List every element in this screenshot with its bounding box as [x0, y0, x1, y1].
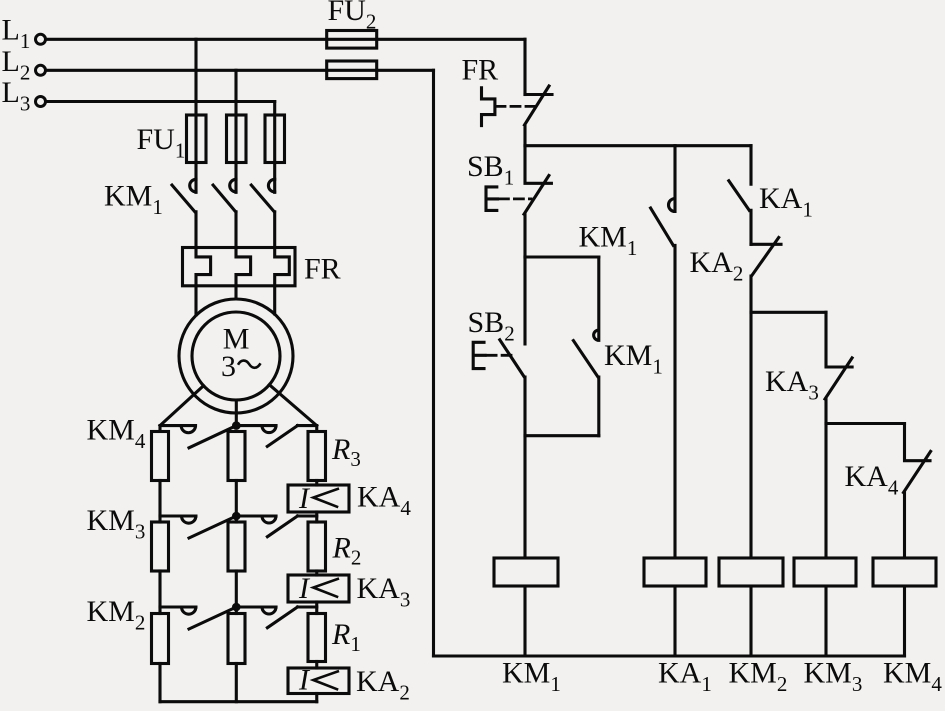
- relay KA2 NC contact: [751, 238, 781, 559]
- wire bottom mid col: [235, 664, 238, 702]
- wire bottom bus: [160, 700, 317, 703]
- resistor row2 mid: [228, 522, 245, 571]
- pushbutton SB1 NC contact: [524, 146, 551, 257]
- wire self-hold branch top: [525, 255, 599, 258]
- contactor KM4 contact b: [262, 426, 298, 447]
- svg-text:FR: FR: [304, 253, 341, 286]
- wire left col row1-row2: [158, 481, 161, 523]
- coil KA1: [644, 558, 706, 586]
- SB1 actuator dashed link: [499, 197, 531, 200]
- wire row1 left: [160, 426, 196, 432]
- resistor row3 left: [152, 614, 169, 664]
- resistor row2 left: [152, 522, 169, 571]
- contactor KM4 contact a: [181, 426, 236, 448]
- svg-text:KM2: KM2: [87, 595, 146, 635]
- svg-text:KM1: KM1: [502, 657, 561, 697]
- contactor KM1 aux contact (self-hold): [573, 257, 598, 436]
- contactor KM1 main contact phase2: [213, 179, 236, 212]
- wire row1 right: [298, 426, 317, 432]
- svg-text:KA1: KA1: [658, 657, 712, 697]
- wire control branch bus: [525, 144, 751, 147]
- wire row1 mid-right: [236, 424, 276, 427]
- contactor KM3 contact b: [262, 516, 298, 537]
- coil KM1: [494, 558, 558, 586]
- wire motor left diagonal: [160, 386, 204, 426]
- pushbutton SB2 NO contact: [500, 257, 525, 558]
- fuse FU2 (L1): [327, 31, 377, 49]
- wire KM4 coil to bus: [903, 586, 906, 656]
- contactor KM1 main contact phase3: [251, 179, 274, 212]
- wire motor right diagonal: [269, 385, 316, 426]
- svg-text:KM1: KM1: [604, 339, 663, 379]
- node junction row1: [232, 421, 241, 430]
- wire R1 to KA2 coil: [315, 662, 318, 669]
- wire mid col row2-row3: [235, 571, 238, 614]
- svg-text:SB2: SB2: [468, 306, 515, 346]
- thermal relay FR NC contact: [525, 86, 553, 146]
- svg-text:KM1: KM1: [579, 221, 638, 261]
- wire mid col row1-row2: [235, 481, 238, 523]
- svg-text:3: 3: [221, 350, 236, 383]
- svg-text:KM4: KM4: [883, 657, 942, 697]
- SB2 actuator: [473, 342, 485, 368]
- svg-text:KA4: KA4: [845, 460, 899, 500]
- wire row3 right: [298, 605, 317, 608]
- KA2 box symbol I<: [313, 671, 338, 689]
- svg-text:FU1: FU1: [137, 123, 186, 163]
- svg-text:KA3: KA3: [357, 572, 411, 612]
- current relay coil KA2 box: [288, 668, 349, 694]
- svg-text:KM4: KM4: [87, 413, 146, 453]
- wire KM3 branch top: [751, 311, 826, 314]
- svg-text:KM3: KM3: [804, 657, 863, 697]
- wire KM3 coil to bus: [824, 586, 827, 656]
- wire drop phase1: [194, 39, 197, 192]
- svg-text:KA1: KA1: [759, 182, 813, 222]
- resistor R2: [308, 522, 326, 571]
- fuse FU1 phase3: [265, 115, 285, 163]
- coil KM4: [873, 558, 936, 586]
- relay KA3 NC contact: [825, 312, 852, 558]
- node junction row2: [232, 512, 241, 521]
- node junction row3: [232, 603, 241, 612]
- KA3 box symbol I<: [313, 579, 338, 597]
- wire KA3 to R1: [315, 602, 318, 614]
- current relay coil KA4 box: [288, 485, 349, 512]
- svg-text:KM3: KM3: [87, 504, 146, 544]
- relay KA4 NC contact: [904, 424, 931, 559]
- relay KA1 NO contact: [729, 146, 751, 245]
- resistor R3: [308, 432, 326, 481]
- current relay coil KA3 box: [288, 575, 349, 602]
- SB1 actuator: [486, 187, 498, 211]
- wire bottom right col: [315, 694, 318, 702]
- resistor row1 mid: [228, 432, 245, 481]
- thermal relay FR box: [183, 248, 296, 286]
- FR heater phase1 + wire to motor: [196, 212, 211, 315]
- KA4 box symbol I<: [313, 489, 338, 507]
- wire drop phase3: [273, 102, 276, 193]
- svg-text:KA2: KA2: [690, 246, 744, 286]
- svg-text:R3: R3: [331, 433, 361, 471]
- contactor KM1 main contact phase1: [172, 179, 196, 212]
- fuse FU2 (L2): [327, 61, 377, 79]
- svg-text:KA2: KA2: [356, 665, 410, 705]
- wire self-hold branch bottom: [525, 434, 599, 437]
- contactor KM2 contact b: [262, 607, 298, 628]
- wire KA1 coil to bus: [673, 586, 676, 656]
- svg-text:KA4: KA4: [357, 481, 411, 521]
- wire control main drop: [523, 39, 526, 94]
- wire R3 to KA4 coil: [315, 481, 318, 486]
- coil KM3: [794, 558, 856, 586]
- svg-text:KM2: KM2: [729, 657, 788, 697]
- terminal L3: [36, 97, 46, 107]
- fuse FU1 phase2: [227, 115, 247, 163]
- wire KM2 coil to bus: [749, 586, 752, 656]
- motor M outer circle: [179, 299, 293, 413]
- svg-text:FU2: FU2: [328, 0, 377, 34]
- FR actuator: [482, 88, 495, 126]
- wire L1: [47, 38, 526, 41]
- wire R2 to KA3 coil: [315, 571, 318, 575]
- motor M inner circle: [192, 312, 280, 400]
- svg-text:R1: R1: [331, 618, 361, 656]
- SB2 actuator dashed link: [487, 354, 511, 357]
- wire control return left: [432, 70, 435, 656]
- svg-text:I: I: [298, 482, 311, 515]
- wire row2 left: [160, 514, 196, 517]
- wire KM4 branch top: [826, 422, 905, 425]
- wire KM1 coil to bus: [523, 586, 526, 656]
- FR heater phase3 + wire to motor: [275, 212, 290, 314]
- terminal L1: [36, 34, 46, 44]
- wire control bottom bus: [434, 654, 905, 657]
- resistor row1 left: [152, 432, 169, 481]
- svg-text:I: I: [298, 572, 311, 605]
- wire drop phase2: [234, 70, 237, 192]
- wire motor bottom to junction: [235, 400, 238, 426]
- contactor KM1 aux contact (KA1 branch): [651, 146, 675, 558]
- wire KA4 to R2: [315, 512, 318, 522]
- wire row2 mid-right: [236, 514, 276, 517]
- terminal L2: [36, 65, 46, 75]
- svg-text:KM1: KM1: [104, 180, 163, 220]
- svg-text:KA3: KA3: [765, 365, 819, 405]
- coil KM2: [719, 558, 783, 586]
- wire row3 left: [160, 605, 196, 608]
- contactor KM2 contact a: [182, 607, 237, 629]
- svg-text:SB1: SB1: [467, 150, 514, 190]
- resistor R1: [308, 614, 326, 662]
- FR heater phase2 + wire to motor: [236, 212, 251, 299]
- wire L2: [47, 69, 434, 72]
- wire left col row2-row3: [158, 571, 161, 614]
- svg-text:FR: FR: [462, 54, 499, 87]
- wire bottom left col: [158, 664, 161, 702]
- wire row2 right: [298, 514, 317, 517]
- FR actuator dashed link: [496, 105, 534, 108]
- wire L3: [47, 100, 275, 103]
- fuse FU1 phase1: [187, 115, 207, 163]
- svg-text:R2: R2: [332, 532, 362, 570]
- resistor row3 mid: [228, 614, 245, 664]
- wire row3 mid-right: [236, 605, 276, 608]
- contactor KM3 contact a: [182, 516, 237, 538]
